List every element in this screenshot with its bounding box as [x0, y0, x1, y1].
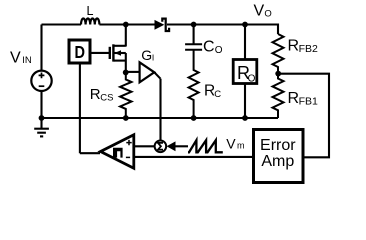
- node: top rail / drain junction: [123, 22, 129, 28]
- svg-text:CS: CS: [100, 93, 113, 104]
- wire left rail upper (Vin top): [40, 25, 42, 71]
- svg-text:D: D: [75, 42, 86, 62]
- svg-text:Amp: Amp: [261, 153, 294, 170]
- wire top rail middle segment: [99, 23, 154, 25]
- diode D1 cathode bar with schottky hooks: [162, 19, 169, 31]
- svg-text:V: V: [254, 3, 265, 20]
- ground bar 3: [40, 135, 43, 137]
- resistor RC (ESR) with wires: [189, 50, 199, 118]
- svg-text:R: R: [288, 90, 300, 107]
- driver box D: [69, 40, 90, 63]
- wire driver to comparator output: [80, 152, 100, 154]
- svg-text:Error: Error: [260, 137, 296, 154]
- svg-text:R: R: [288, 37, 300, 54]
- load box RO: [233, 60, 257, 84]
- capacitor CO plates: [185, 44, 202, 49]
- transistor Q1 body bar: [114, 52, 126, 54]
- wire left rail lower (Vin bottom): [40, 91, 42, 118]
- svg-text:R: R: [90, 86, 101, 103]
- VIN plus sign: [39, 73, 45, 79]
- comparator minus label: [126, 156, 130, 158]
- comparator pulse glyph: [113, 148, 123, 158]
- wire RCS node to Gi buffer input: [126, 71, 140, 73]
- wire Gi output diagonal: [154, 72, 160, 78]
- VIN minus sign: [39, 85, 45, 87]
- node: ground rail / Vin junction: [39, 115, 45, 121]
- node: top rail / CO junction: [191, 22, 197, 28]
- wire feedback node to right: [278, 74, 329, 158]
- node: top rail / RO junction Vo: [242, 22, 248, 28]
- resistor RFB2: [273, 34, 284, 74]
- error amp box: [254, 130, 304, 183]
- svg-text:FB1: FB1: [299, 96, 318, 108]
- svg-text:IN: IN: [22, 55, 32, 66]
- capacitor CO top wire: [193, 25, 195, 45]
- node: ground rail / RC junction: [191, 115, 197, 121]
- node: ground rail / RO junction: [242, 115, 248, 121]
- svg-text:V: V: [10, 49, 21, 66]
- svg-text:C: C: [214, 89, 221, 100]
- resistor RFB1: [273, 74, 284, 118]
- svg-text:V: V: [226, 136, 236, 152]
- sigma glyph: [158, 143, 163, 150]
- ground bar 2: [37, 132, 46, 134]
- wire Gi output down to summer: [159, 79, 161, 141]
- svg-text:O: O: [264, 9, 271, 20]
- load box RO wires: [244, 25, 246, 119]
- wire gate from driver box: [92, 52, 110, 54]
- svg-text:L: L: [87, 4, 94, 18]
- sawtooth ramp Vm waveform: [188, 140, 223, 152]
- voltage source VIN circle: [31, 71, 51, 91]
- wire comparator minus input to error amp: [134, 156, 252, 158]
- svg-text:I: I: [152, 52, 154, 62]
- op-amp Gi current sense buffer: [140, 62, 155, 82]
- wire comparator plus input to summer: [134, 145, 155, 147]
- svg-text:G: G: [141, 47, 152, 63]
- transistor Q1 channel line: [112, 44, 114, 61]
- svg-text:FB2: FB2: [299, 43, 318, 55]
- svg-text:m: m: [237, 141, 245, 151]
- node: feedback divider junction: [275, 71, 281, 77]
- node: source / RCS / Gi junction: [123, 70, 129, 76]
- transistor Q1 body arrow: [115, 50, 122, 55]
- summer sigma circle: [155, 141, 167, 153]
- comparator plus label: [126, 140, 131, 145]
- svg-text:O: O: [215, 45, 223, 56]
- inductor L: [81, 19, 99, 25]
- transistor Q1 gate bar: [109, 47, 111, 59]
- svg-text:O: O: [248, 73, 256, 84]
- node: ground rail / RCS junction: [123, 115, 129, 121]
- comparator U1 (PWM) triangle: [101, 135, 134, 168]
- transistor Q1 source bar: [114, 60, 126, 62]
- arrow into summer: [167, 141, 176, 151]
- wire MOSFET drain/source vertical: [125, 25, 127, 73]
- arrow shaft: [176, 145, 189, 147]
- transistor Q1 drain bar: [114, 45, 126, 47]
- ground stub: [40, 118, 42, 129]
- svg-text:C: C: [203, 39, 215, 56]
- wire top rail right segment with corner down to RFB2: [167, 25, 278, 35]
- wire bottom ground rail: [42, 117, 279, 119]
- wire top rail left segment: [42, 23, 82, 25]
- ground bar 1: [34, 128, 49, 130]
- resistor RCS: [120, 73, 131, 118]
- wire driver output down: [79, 63, 81, 153]
- diode D1 (Schottky) anode triangle: [155, 20, 165, 30]
